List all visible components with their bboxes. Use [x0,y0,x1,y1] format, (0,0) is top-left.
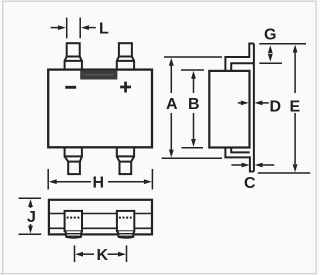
polarity marking band [80,70,117,79]
dimension B [181,70,204,148]
svg-text:D: D [270,99,282,116]
dimension C [231,163,274,168]
bottom-right pin [117,147,134,174]
svg-text:C: C [244,175,256,192]
side view top lead [225,44,254,71]
top-left pin [65,43,82,69]
dimension K [75,245,127,262]
svg-text:G: G [264,27,276,44]
bottom view inner lines [49,213,152,215]
svg-text:B: B [188,96,200,113]
minus sign [65,86,76,89]
svg-text:E: E [290,99,301,116]
dimension J [19,198,42,234]
svg-text:K: K [97,247,109,264]
dimension A [162,57,222,158]
svg-text:H: H [93,175,105,192]
front view body [48,70,152,148]
bottom view outline [49,200,152,235]
dimension L [51,18,96,39]
side view body [209,71,249,148]
dimension D [238,101,269,106]
plus sign [120,82,131,93]
side view lead right edge [253,44,255,172]
bottom view left pad [65,211,82,238]
svg-text:J: J [27,209,36,226]
side view bottom lead [225,148,254,172]
top-right pin [117,43,134,69]
dimension G [259,45,282,63]
dimension H [48,169,152,190]
dimension E [258,44,311,173]
svg-text:L: L [99,21,109,38]
svg-text:A: A [166,96,178,113]
bottom-left pin [65,147,82,174]
bottom view right pad [117,211,134,238]
